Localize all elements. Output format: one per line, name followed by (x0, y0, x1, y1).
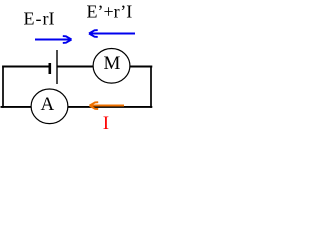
wire motor to right corner (130, 66, 153, 68)
motor M circle (93, 49, 130, 84)
svg-text:I: I (103, 113, 109, 134)
wire top-right (battery to motor) (57, 66, 94, 68)
battery negative plate (short) (48, 63, 51, 74)
svg-text:M: M (104, 53, 121, 74)
svg-text:A: A (41, 94, 55, 115)
wire top-left (left corner to battery) (2, 66, 49, 68)
current arrow I (orange, pointing left on bottom wire) (90, 102, 125, 109)
arrow for E - rI (blue, pointing right) (35, 36, 72, 43)
arrow for E' + r'I (blue, pointing left) (89, 30, 135, 37)
wire left vertical (2, 66, 4, 108)
ammeter A circle (31, 89, 68, 124)
svg-text:E’+r’I: E’+r’I (87, 2, 133, 22)
svg-text:E-rI: E-rI (24, 9, 55, 29)
wire bottom-left (corner to ammeter) (1, 106, 32, 108)
wire right vertical (150, 66, 152, 108)
battery positive plate (long) (56, 50, 58, 84)
wire bottom-right (ammeter to right corner) (68, 106, 152, 108)
